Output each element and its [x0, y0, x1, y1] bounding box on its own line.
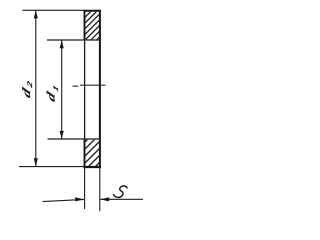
washer right edge — [99, 10, 101, 168]
center line dash — [72, 85, 78, 87]
arrowhead s right — [100, 197, 109, 201]
label s — [114, 186, 127, 197]
arrowhead d1 top — [60, 40, 64, 48]
arrowhead d2 top — [34, 10, 38, 18]
washer top edge — [84, 10, 101, 12]
wire: s left extension line — [84, 168, 86, 209]
washer left edge lower — [84, 139, 86, 168]
arrowhead d1 bottom — [60, 131, 64, 139]
wire: s dimension line right tail — [100, 198, 143, 200]
wire: d2 dimension line — [35, 10, 37, 166]
hatch top band — [86, 12, 100, 40]
hole top edge — [47, 39, 101, 41]
wire: s right extension line — [99, 168, 101, 211]
arrowhead d2 bottom — [34, 158, 38, 166]
wire: d2 top extension line — [22, 9, 83, 11]
hatch bottom band — [86, 140, 100, 166]
washer bottom edge — [84, 166, 101, 168]
washer left edge upper — [84, 10, 86, 40]
wire: s dimension line left tail — [43, 199, 85, 201]
wire: d1 dimension line — [61, 40, 63, 139]
washer left edge mid (hole) — [84, 40, 86, 139]
center line — [80, 84, 106, 86]
wire: d2 bottom extension line — [19, 166, 84, 168]
arrowhead s left — [75, 197, 84, 201]
hole bottom edge — [48, 138, 101, 140]
